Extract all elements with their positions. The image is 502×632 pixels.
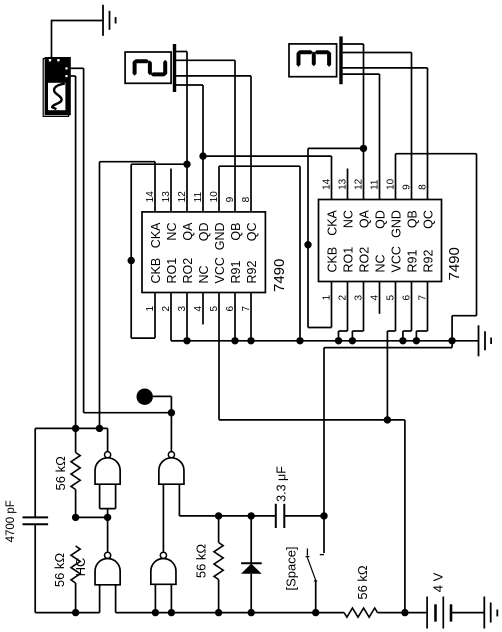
- junction on ground bus: [335, 337, 342, 344]
- junction on ground bus: [247, 337, 254, 344]
- junction R3 bottom: [215, 609, 222, 616]
- junction U5 QA pin 12: [360, 145, 367, 152]
- junction U2 output node: [168, 409, 175, 416]
- bottom rail wire left segment: [35, 612, 99, 614]
- wire U5 QA pin12 to CKB pin1: [308, 147, 364, 149]
- svg-text:R92: R92: [245, 261, 259, 284]
- junction on ground bus: [296, 337, 303, 344]
- wire U5 R91 pin6 to bus: [411, 282, 413, 332]
- capacitor C2 3.3 uF: [275, 504, 277, 528]
- wire U1 QD pin11 to IC2 CKA pin14: [203, 155, 332, 157]
- seven-segment display DS1 showing 2: [125, 44, 176, 92]
- junction on ground bus: [349, 337, 356, 344]
- IC U5 7490 decade counter box: [319, 200, 442, 282]
- svg-text:12: 12: [354, 178, 365, 190]
- switch S1 [Space]: [323, 516, 325, 553]
- svg-text:QB: QB: [229, 222, 243, 240]
- seven-segment display DS2 showing 3: [289, 36, 343, 84]
- resistor R4 56 k ohm in rail: [344, 608, 377, 617]
- svg-text:3.3 μF: 3.3 μF: [275, 466, 289, 502]
- svg-text:4700 pF: 4700 pF: [5, 500, 17, 542]
- junction on ground bus: [448, 337, 455, 344]
- svg-text:56 kΩ: 56 kΩ: [52, 553, 67, 588]
- svg-text:CKB: CKB: [325, 247, 339, 273]
- wire DS2 pin to IC2 QA pin 12: [343, 43, 364, 45]
- wire DS1 pin to IC1 QB pin 9: [176, 59, 235, 61]
- junction on ground bus: [183, 337, 190, 344]
- ground (bus right end): [478, 325, 480, 356]
- U5 pin 13 NC stub: [347, 169, 349, 200]
- IC U1 7490 decade counter box: [142, 212, 265, 293]
- wire U1 R91 pin6 to bus: [234, 293, 236, 341]
- U2B right input to timing node C: [178, 484, 180, 516]
- U2B left input from U2D output: [162, 484, 164, 552]
- svg-text:CKB: CKB: [149, 258, 163, 284]
- wire U5 RO1 pin2 to bus: [347, 282, 349, 332]
- svg-text:11: 11: [370, 179, 381, 190]
- wire probe to U2 output: [153, 395, 172, 397]
- oscilloscope XSC1: [43, 57, 71, 116]
- svg-text:NC: NC: [165, 223, 179, 241]
- svg-text:CKA: CKA: [149, 222, 163, 248]
- bottom rail wire mid segment: [116, 612, 345, 614]
- wire U1 RO2 pin3 to bus: [186, 293, 188, 341]
- svg-text:NC: NC: [373, 254, 387, 272]
- junction R3 top: [215, 512, 222, 519]
- junction battery feed on rail: [401, 609, 408, 616]
- wire U2 output node to scope A: [84, 412, 172, 414]
- svg-text:VCC: VCC: [389, 246, 403, 272]
- wire U5 VCC pin5 to supply: [395, 282, 397, 332]
- svg-text:7490: 7490: [271, 259, 288, 292]
- svg-text:8: 8: [418, 184, 429, 190]
- wire DS2 pin to IC2 QB pin 9: [343, 52, 412, 54]
- junction U1 QA pin 12: [183, 161, 190, 168]
- svg-text:RO2: RO2: [181, 258, 195, 284]
- svg-text:56 kΩ: 56 kΩ: [194, 544, 209, 579]
- ground (battery): [483, 597, 485, 629]
- svg-text:7490: 7490: [446, 247, 463, 280]
- U2C output to node B: [107, 517, 109, 552]
- svg-text:QB: QB: [405, 210, 419, 228]
- wire U1 R92 pin7 to bus: [250, 293, 252, 341]
- wire bus to switch node: [451, 341, 453, 348]
- svg-text:56 kΩ: 56 kΩ: [53, 456, 68, 491]
- junction D1 bottom: [248, 609, 255, 616]
- U2D inputs to bottom rail: [154, 584, 156, 612]
- junction node A / resistor R1: [72, 425, 79, 432]
- wire DS2 pin to IC2 QD pin 11: [343, 73, 380, 75]
- junction R2 bottom on rail: [72, 609, 79, 616]
- svg-text:HC: HC: [73, 558, 88, 577]
- svg-text:11: 11: [193, 191, 204, 202]
- wire DS1 pin to IC1 QA pin 12: [176, 51, 187, 53]
- wire battery to ground: [451, 612, 484, 614]
- resistor R1 56 k ohm: [75, 428, 77, 452]
- wire DS2 pin to IC2 QC pin 8: [343, 67, 428, 69]
- svg-text:QA: QA: [181, 222, 195, 241]
- svg-text:8: 8: [241, 196, 252, 202]
- NAND gate U2B: [168, 452, 174, 458]
- NAND gate U2A: [105, 452, 111, 458]
- svg-text:QD: QD: [197, 223, 211, 242]
- junction U2D input left on rail: [152, 609, 159, 616]
- wire DS1 pin to IC1 QD pin 11: [176, 84, 203, 86]
- wire DS1 pin to IC1 QC pin 8: [176, 75, 251, 77]
- junction S1 bottom on rail: [312, 609, 319, 616]
- svg-text:14: 14: [322, 178, 333, 190]
- wire U1 QA pin12 to CKB pin1: [131, 163, 187, 165]
- svg-text:QD: QD: [373, 210, 387, 229]
- svg-text:9: 9: [402, 184, 413, 190]
- svg-text:R92: R92: [421, 250, 435, 273]
- svg-text:QC: QC: [421, 210, 435, 229]
- wire U1 RO1 pin2 to bus: [170, 293, 172, 341]
- resistor R3 56 k ohm: [218, 516, 220, 543]
- junction D1 top: [248, 512, 255, 519]
- svg-text:QA: QA: [357, 209, 371, 228]
- svg-text:RO1: RO1: [341, 247, 355, 273]
- svg-text:R91: R91: [229, 261, 243, 284]
- wire scope output B to oscillator node A: [71, 75, 76, 77]
- NAND gate U2C: [105, 552, 111, 558]
- wire U1 GND pin10 to ground bus: [218, 166, 220, 212]
- wire U5 R92 pin7 to bus: [427, 282, 429, 332]
- resistor R2 56 k ohm: [71, 546, 80, 583]
- svg-text:NC: NC: [197, 265, 211, 283]
- junction node B / U2A inputs: [104, 514, 111, 521]
- junction U2D input right on rail: [168, 609, 175, 616]
- junction VCC node: [384, 416, 391, 423]
- svg-text:NC: NC: [341, 210, 355, 228]
- svg-text:QC: QC: [245, 222, 259, 241]
- svg-text:RO2: RO2: [357, 247, 371, 273]
- svg-text:R91: R91: [405, 250, 419, 273]
- junction on ground bus: [399, 337, 406, 344]
- NAND gate U2D: [160, 552, 166, 558]
- wire clock to U1 CKA pin14: [100, 161, 156, 163]
- svg-text:[Space]: [Space]: [284, 546, 299, 590]
- svg-text:CKA: CKA: [325, 209, 339, 235]
- wire U5 RO2 pin3 to bus: [363, 282, 365, 332]
- wire U2 output down to gate: [170, 413, 172, 452]
- svg-text:9: 9: [225, 196, 236, 202]
- svg-text:GND: GND: [213, 223, 227, 251]
- indicator probe dot P1: [137, 389, 153, 405]
- node B wire: [76, 516, 108, 518]
- diode D1: [250, 516, 252, 563]
- wire scope top to ground: [52, 20, 104, 22]
- svg-text:4 V: 4 V: [431, 572, 446, 592]
- wire VCC node to battery positive: [387, 419, 405, 421]
- junction U1 QA wire: [128, 257, 135, 264]
- junction U5 QA wire: [304, 241, 311, 248]
- junction node A / clock wire: [96, 425, 103, 432]
- junction U1 QD pin 11: [199, 152, 206, 159]
- junction on ground bus: [413, 337, 420, 344]
- U2A tied inputs: [99, 484, 101, 508]
- U5 pin 4 NC stub: [379, 282, 381, 314]
- wire U1 VCC pin5 to supply: [218, 293, 220, 420]
- svg-text:12: 12: [177, 191, 188, 203]
- U1 pin 13 NC stub: [170, 169, 172, 212]
- ground bus wire: [171, 340, 478, 342]
- U1 pin 4 NC stub: [202, 293, 204, 325]
- ground (top left, net at scope): [102, 5, 104, 36]
- U2C inputs to bottom rail: [99, 585, 101, 613]
- svg-text:RO1: RO1: [165, 258, 179, 284]
- wire scope output A to gate U2 output node: [71, 67, 84, 69]
- junction node B / R1 bottom: [72, 514, 79, 521]
- battery B1 4 V: [426, 597, 428, 629]
- junction C2 right / switch node: [320, 512, 327, 519]
- capacitor C1 4700 pF: [23, 516, 49, 518]
- svg-text:56 kΩ: 56 kΩ: [355, 565, 370, 600]
- oscillator node A wire: [35, 427, 107, 429]
- wire U5 GND pin10 to ground bus: [395, 154, 397, 200]
- junction on ground bus: [231, 337, 238, 344]
- bottom rail wire right segment: [378, 612, 428, 614]
- svg-text:VCC: VCC: [213, 257, 227, 283]
- svg-text:GND: GND: [389, 210, 403, 238]
